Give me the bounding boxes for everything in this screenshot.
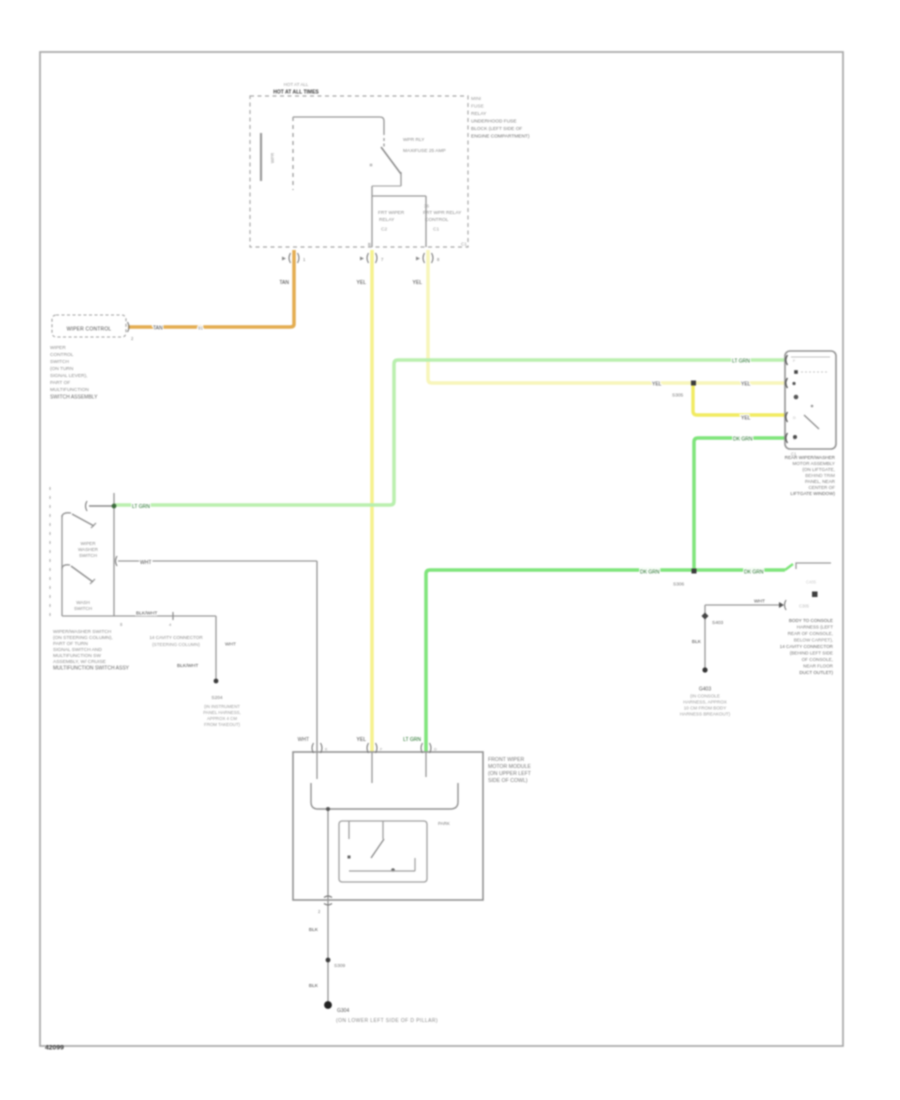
svg-text:LT GRN: LT GRN — [732, 359, 750, 365]
svg-text:BEHIND TRIM: BEHIND TRIM — [805, 473, 835, 478]
svg-text:S305: S305 — [672, 393, 684, 399]
svg-text:YEL: YEL — [357, 280, 367, 286]
svg-text:HOT AT ALL TIMES: HOT AT ALL TIMES — [273, 90, 319, 96]
svg-text:36: 36 — [424, 204, 430, 209]
svg-text:HARNESS BREAKOUT): HARNESS BREAKOUT) — [680, 712, 731, 717]
svg-text:WIPER: WIPER — [80, 541, 96, 546]
svg-text:C1: C1 — [461, 242, 467, 247]
svg-text:MULTIFUNCTION: MULTIFUNCTION — [50, 387, 89, 393]
svg-text:1: 1 — [303, 257, 306, 262]
svg-text:BLK: BLK — [309, 927, 319, 933]
svg-text:CONTROL: CONTROL — [425, 217, 449, 223]
svg-text:FRT WIPER: FRT WIPER — [378, 210, 405, 216]
svg-text:LT GRN: LT GRN — [403, 737, 421, 743]
svg-text:G304: G304 — [337, 1008, 349, 1014]
svg-text:WPR: WPR — [270, 152, 275, 163]
svg-text:SIDE OF COWL): SIDE OF COWL) — [488, 778, 528, 784]
svg-text:FUSE: FUSE — [471, 104, 484, 110]
svg-text:YEL: YEL — [741, 382, 751, 388]
svg-text:91: 91 — [198, 326, 204, 331]
svg-text:NEAR FLOOR: NEAR FLOOR — [803, 664, 834, 669]
svg-text:ASSEMBLY, W/ CRUISE: ASSEMBLY, W/ CRUISE — [53, 659, 106, 665]
svg-text:PART OF: PART OF — [50, 380, 70, 386]
svg-text:7: 7 — [381, 257, 384, 262]
svg-text:S403: S403 — [712, 620, 724, 626]
svg-text:BODY TO CONSOLE: BODY TO CONSOLE — [789, 618, 833, 623]
svg-text:ENGINE COMPARTMENT): ENGINE COMPARTMENT) — [471, 134, 530, 140]
svg-text:(BEHIND LEFT SIDE: (BEHIND LEFT SIDE — [790, 651, 833, 656]
svg-text:(ON TURN: (ON TURN — [50, 366, 74, 372]
svg-text:E: E — [325, 748, 328, 752]
svg-text:BLK: BLK — [309, 983, 319, 989]
svg-text:FRONT WIPER: FRONT WIPER — [488, 757, 524, 763]
svg-text:CENTER OF: CENTER OF — [808, 485, 835, 490]
svg-text:CONTROL: CONTROL — [50, 352, 74, 358]
svg-text:C2: C2 — [381, 227, 387, 233]
svg-text:2: 2 — [131, 336, 134, 341]
svg-text:(ON LIFTGATE,: (ON LIFTGATE, — [802, 467, 835, 472]
svg-text:TAN: TAN — [279, 280, 289, 286]
svg-text:B: B — [368, 242, 371, 247]
svg-text:10 CM FROM BODY: 10 CM FROM BODY — [684, 706, 727, 711]
svg-text:FROM TAKEOUT): FROM TAKEOUT) — [204, 722, 240, 727]
svg-text:WIPER CONTROL: WIPER CONTROL — [67, 327, 112, 333]
svg-text:REAR WIPER/WASHER: REAR WIPER/WASHER — [785, 455, 836, 460]
svg-text:SWITCH: SWITCH — [50, 359, 69, 365]
svg-text:PART OF TURN: PART OF TURN — [53, 641, 88, 647]
svg-text:MAXIFUSE 25 AMP: MAXIFUSE 25 AMP — [403, 148, 446, 154]
svg-text:C1: C1 — [433, 227, 439, 233]
svg-text:8: 8 — [120, 622, 123, 627]
svg-text:C405: C405 — [806, 580, 817, 585]
svg-text:HARNESS (LEFT: HARNESS (LEFT — [797, 625, 833, 630]
svg-text:PANEL, NEAR: PANEL, NEAR — [805, 479, 836, 484]
svg-text:SWITCH ASSEMBLY: SWITCH ASSEMBLY — [50, 395, 98, 401]
svg-text:8: 8 — [437, 257, 440, 262]
svg-text:(ON STEERING COLUMN),: (ON STEERING COLUMN), — [53, 635, 113, 641]
svg-text:OF CONSOLE,: OF CONSOLE, — [802, 657, 833, 662]
svg-text:D: D — [434, 748, 437, 752]
svg-text:BLK/WHT: BLK/WHT — [177, 663, 198, 669]
svg-text:DK GRN: DK GRN — [744, 570, 764, 576]
svg-text:HOT AT ALL: HOT AT ALL — [284, 82, 309, 87]
svg-text:RELAY: RELAY — [471, 111, 487, 117]
svg-text:SIGNAL LEVER),: SIGNAL LEVER), — [50, 373, 87, 379]
svg-text:MULTIFUNCTION SW: MULTIFUNCTION SW — [53, 653, 101, 659]
svg-text:(ON UPPER LEFT: (ON UPPER LEFT — [488, 771, 532, 777]
svg-text:YEL: YEL — [357, 737, 367, 743]
svg-text:MOTOR ASSEMBLY: MOTOR ASSEMBLY — [793, 461, 835, 466]
svg-text:UNDERHOOD FUSE: UNDERHOOD FUSE — [471, 119, 517, 125]
svg-text:42099: 42099 — [45, 1045, 64, 1052]
svg-text:WIPER/WASHER SWITCH: WIPER/WASHER SWITCH — [53, 629, 112, 635]
svg-text:14 CAVITY CONNECTOR: 14 CAVITY CONNECTOR — [780, 644, 834, 649]
svg-text:WHT: WHT — [754, 599, 765, 605]
svg-text:WHT: WHT — [225, 642, 236, 648]
svg-text:SWITCH: SWITCH — [79, 553, 97, 558]
svg-text:LIFTGATE WINDOW): LIFTGATE WINDOW) — [790, 491, 835, 496]
svg-text:BLOCK (LEFT SIDE OF: BLOCK (LEFT SIDE OF — [471, 126, 522, 132]
svg-text:SWITCH: SWITCH — [74, 606, 92, 611]
svg-text:YEL: YEL — [652, 382, 662, 388]
svg-text:14 CAVITY CONNECTOR: 14 CAVITY CONNECTOR — [149, 635, 203, 640]
svg-text:BELOW CARPET),: BELOW CARPET), — [794, 638, 833, 643]
svg-text:TAN: TAN — [153, 326, 163, 332]
svg-text:4: 4 — [169, 622, 172, 627]
svg-text:FRT WPR RELAY: FRT WPR RELAY — [423, 210, 462, 216]
svg-text:G403: G403 — [699, 687, 711, 693]
svg-text:MINI: MINI — [471, 96, 481, 102]
svg-text:WPR RLY: WPR RLY — [403, 137, 425, 143]
svg-text:SIGNAL SWITCH AND: SIGNAL SWITCH AND — [53, 647, 102, 653]
svg-text:WHT: WHT — [298, 737, 309, 743]
svg-text:WASH: WASH — [76, 600, 90, 605]
svg-text:WIPER: WIPER — [50, 345, 66, 351]
svg-text:BLK/WHT: BLK/WHT — [136, 611, 157, 617]
svg-text:S204: S204 — [211, 695, 223, 701]
svg-text:PANEL HARNESS,: PANEL HARNESS, — [203, 710, 241, 715]
svg-text:MOTOR MODULE: MOTOR MODULE — [488, 764, 531, 770]
svg-text:(ON LOWER LEFT SIDE OF D PILLA: (ON LOWER LEFT SIDE OF D PILLAR) — [336, 1018, 438, 1024]
svg-text:PARK: PARK — [438, 821, 450, 826]
svg-text:D: D — [793, 416, 796, 420]
svg-text:2: 2 — [318, 909, 321, 914]
svg-text:S306: S306 — [673, 582, 685, 588]
svg-text:YEL: YEL — [413, 280, 423, 286]
svg-text:DK GRN: DK GRN — [733, 437, 753, 443]
svg-text:DK GRN: DK GRN — [640, 570, 660, 576]
svg-text:WHT: WHT — [140, 560, 151, 566]
svg-text:DUCT OUTLET): DUCT OUTLET) — [799, 670, 833, 675]
svg-text:LT GRN: LT GRN — [132, 504, 150, 510]
svg-text:(IN INSTRUMENT: (IN INSTRUMENT — [204, 704, 240, 709]
svg-text:HARNESS, APPROX: HARNESS, APPROX — [683, 700, 727, 705]
svg-text:YEL: YEL — [741, 416, 751, 422]
svg-text:MULTIFUNCTION SWITCH ASSY: MULTIFUNCTION SWITCH ASSY — [53, 666, 130, 672]
svg-text:WASHER: WASHER — [78, 547, 99, 552]
svg-text:F: F — [380, 748, 383, 752]
svg-text:(IN CONSOLE: (IN CONSOLE — [690, 694, 720, 699]
svg-text:APPROX 4 CM: APPROX 4 CM — [207, 716, 237, 721]
svg-text:RELAY: RELAY — [379, 217, 395, 223]
svg-text:REAR OF CONSOLE,: REAR OF CONSOLE, — [788, 631, 833, 636]
svg-text:(STEERING COLUMN): (STEERING COLUMN) — [152, 642, 200, 647]
svg-text:BLK: BLK — [692, 639, 702, 645]
svg-text:C305: C305 — [799, 604, 810, 609]
svg-text:S309: S309 — [334, 963, 346, 969]
